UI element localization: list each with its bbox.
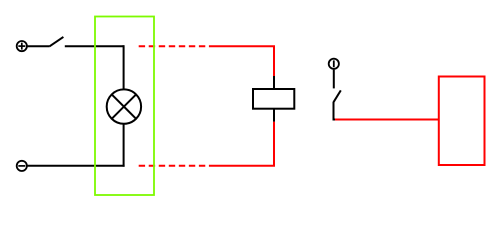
wire lamp bottom to corner <box>123 124 125 167</box>
wire node to lamp top <box>123 45 125 89</box>
wire from switch to node <box>65 45 124 47</box>
wire switch down to corner <box>334 102 337 120</box>
red conductor bottom solid + right corner up <box>209 122 274 166</box>
red wire to load <box>335 119 439 121</box>
battery negative terminal BT- <box>17 161 27 171</box>
relay coil K1 top lead <box>273 76 275 89</box>
wire from + terminal to switch <box>28 45 50 47</box>
switch S1 blade (open) <box>49 37 63 47</box>
control terminal (circle with bar) <box>329 59 339 69</box>
red dashed conductor top <box>139 45 206 47</box>
red conductor top solid + right corner down <box>209 46 274 76</box>
lamp L1 <box>107 89 141 123</box>
red load box M1 <box>439 77 485 166</box>
switch S2 blade (open) <box>334 90 341 102</box>
battery positive terminal BT+ <box>17 41 27 51</box>
wire terminal to switch <box>333 70 335 89</box>
relay coil K1 bottom lead <box>273 109 275 122</box>
relay coil K1 body <box>253 89 294 109</box>
green boundary box <box>95 17 154 196</box>
bottom return wire to - terminal <box>28 165 125 167</box>
red dashed conductor bottom <box>139 165 206 167</box>
